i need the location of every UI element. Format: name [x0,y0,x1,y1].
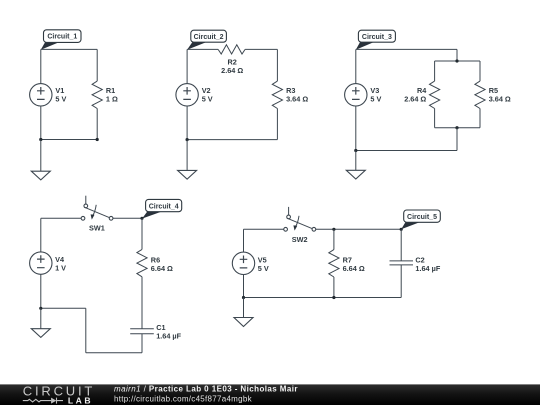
wire switch to R6 [113,217,142,219]
switch SW2 [284,207,316,231]
wire left upper [40,49,42,83]
ground [31,329,50,338]
wire R7 upper [333,229,335,249]
wire bottom left [41,307,86,309]
voltage source V3 [345,84,367,106]
svg-text:6.64 Ω: 6.64 Ω [151,264,173,273]
svg-text:1 Ω: 1 Ω [106,94,118,103]
wire ground stem [186,140,188,171]
voltage source V1 [30,84,52,106]
ground [234,318,253,327]
value label C1 1.64 uF [156,323,181,341]
resistor R1 [92,81,102,108]
wire bottom horizontal [86,352,142,354]
wire C1 lower [141,334,143,353]
wire left lower [243,275,245,298]
wire top [356,48,457,50]
node junction dot [96,138,99,141]
node junction dot [39,138,42,141]
svg-text:http://circuitlab.com/c45f877a: http://circuitlab.com/c45f877a4mgbk [114,394,253,403]
svg-text:Circuit_3: Circuit_3 [362,34,392,41]
svg-text:Circuit_5: Circuit_5 [407,214,437,221]
wire bottom [41,139,97,141]
svg-text:3.64 Ω: 3.64 Ω [489,94,511,103]
node junction dot [332,296,335,299]
svg-text:2.64 Ω: 2.64 Ω [404,94,426,103]
wire left lower [40,106,42,140]
svg-text:2.64 Ω: 2.64 Ω [221,66,243,75]
ground [31,171,50,180]
voltage source V4 [30,252,52,274]
node label Circuit_2 [187,30,226,50]
svg-text:1.64 µF: 1.64 µF [156,331,181,340]
resistor R2 [218,45,245,54]
wire right branch upper [479,61,481,81]
svg-text:Circuit_4: Circuit_4 [149,203,179,210]
switch SW1 [81,196,113,220]
wire right lower [276,109,278,140]
wire left lower [355,106,357,151]
value label R7 6.64 ohm [343,256,365,274]
wire top right [245,48,277,50]
value label V3 5 V [370,86,381,104]
wire right upper [276,49,278,81]
node junction dot [332,228,335,231]
node label Circuit_3 [356,30,396,50]
capacitor C2 [390,261,414,265]
node junction dot [186,138,189,141]
value label V2 5 V [202,86,213,104]
svg-text:5 V: 5 V [55,94,66,103]
wire ground stem [40,308,42,328]
ground [178,170,197,179]
wire bottom [244,297,402,299]
wire left upper [243,229,245,252]
value label R3 3.64 ohm [286,86,308,104]
svg-text:Circuit_1: Circuit_1 [47,34,77,41]
capacitor C1 [130,329,154,334]
wire left upper [40,218,42,252]
wire top left [187,48,218,50]
node junction dot [39,307,42,310]
value label V4 1 V [55,255,66,273]
wire C2 upper [400,229,402,261]
wire ground stem [243,298,245,318]
svg-text:mairn1 / Practice Lab 0 1E03 -: mairn1 / Practice Lab 0 1E03 - Nicholas … [114,385,298,394]
node junction dot [400,228,403,231]
voltage source V2 [176,84,198,106]
wire bottom [187,139,277,141]
wire left branch lower [434,109,436,128]
voltage source V5 [232,252,254,274]
value label R2 2.64 ohm [221,58,243,76]
wire right lower [96,109,98,140]
svg-text:1 V: 1 V [55,264,66,273]
node junction dot [140,217,143,220]
node junction dot [455,59,458,62]
svg-text:3.64 Ω: 3.64 Ω [286,94,308,103]
node label Circuit_5 [401,210,440,229]
svg-text:5 V: 5 V [370,94,381,103]
value label R5 3.64 ohm [489,86,511,104]
value label V1 5 V [55,86,66,104]
node junction dot [455,126,458,129]
wire left branch upper [434,61,436,81]
wire right upper [96,49,98,81]
resistor R7 [329,250,339,277]
node junction dot [354,149,357,152]
wire right branch lower [479,109,481,128]
wire R6 to C1 [141,277,143,329]
value label V5 5 V [258,255,269,273]
wire ground stem [355,151,357,171]
wire middle lower [456,128,458,151]
wire bottom [356,150,457,152]
resistor R4 [430,81,440,108]
value label R1 1 ohm [106,86,118,104]
svg-text:1.64 µF: 1.64 µF [415,264,440,273]
resistor R5 [475,81,485,108]
wire parallel bottom bar [435,127,480,129]
node label Circuit_4 [142,199,182,218]
wire top (Circuit_1) [41,48,97,50]
svg-text:SW1: SW1 [89,223,105,232]
node label Circuit_1 [41,30,81,50]
svg-text:LAB: LAB [68,396,93,405]
wire ground stem [40,140,42,172]
wire C2 lower [400,265,402,298]
resistor R6 [137,249,147,276]
svg-text:SW2: SW2 [292,235,308,244]
wire parallel top bar [435,60,480,62]
wire left upper [355,49,357,83]
svg-text:6.64 Ω: 6.64 Ω [343,264,365,273]
wire middle upper [456,49,458,61]
wire R6 upper [141,218,143,249]
ground [346,170,365,179]
wire top left [244,228,284,230]
node junction dot [242,296,245,299]
svg-text:Circuit_2: Circuit_2 [194,34,224,41]
wire bottom middle vertical [85,308,87,353]
svg-text:5 V: 5 V [258,264,269,273]
wire switch to C2 corner [316,228,401,230]
svg-text:5 V: 5 V [202,94,213,103]
value label R4 2.64 ohm [404,86,427,104]
wire R7 lower [333,277,335,298]
wire left lower [186,106,188,140]
value label C2 1.64 uF [415,256,440,274]
wire top left [41,217,81,219]
value label R6 6.64 ohm [151,255,173,273]
resistor R3 [272,81,282,108]
wire left upper [186,49,188,83]
wire left lower [40,274,42,308]
